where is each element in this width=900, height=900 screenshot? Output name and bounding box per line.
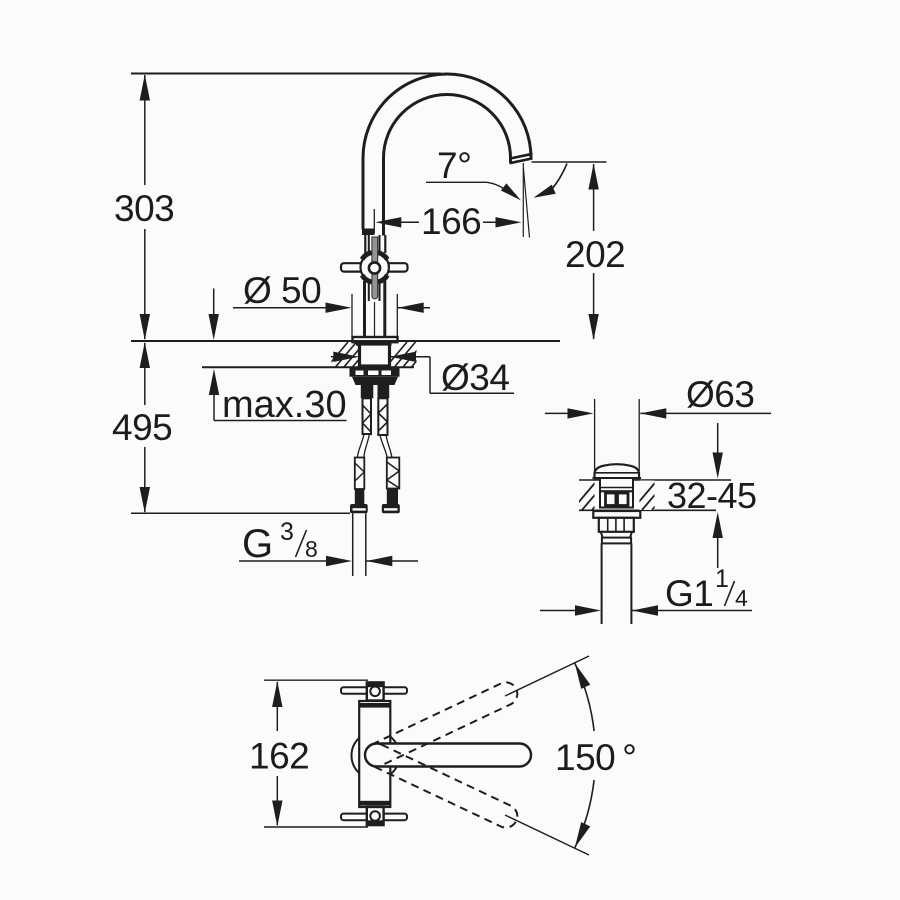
svg-text:Ø34: Ø34 — [441, 357, 509, 398]
hose nut left — [350, 504, 368, 513]
spout outlet cap (7 deg tilted mousseur) — [510, 158, 533, 163]
svg-text:32-45: 32-45 — [667, 475, 757, 516]
column below handle left — [363, 281, 366, 338]
swivel arc arrow upper — [575, 663, 591, 689]
svg-text:150 °: 150 ° — [555, 737, 636, 778]
hub horn upper-left — [362, 253, 372, 260]
spout column left edge — [362, 157, 365, 230]
drain slots — [606, 493, 617, 506]
drain tube — [601, 543, 603, 624]
dimension 495 line — [144, 343, 146, 405]
top handle bar — [341, 687, 407, 694]
spout column inner edge — [382, 157, 385, 236]
svg-text:8: 8 — [305, 536, 318, 562]
drain counter top line — [579, 479, 731, 481]
column inner right — [379, 281, 381, 301]
threaded stud left — [363, 398, 372, 434]
max30 lower arrow — [209, 369, 219, 395]
drain slot body — [600, 491, 633, 507]
locknut black — [350, 367, 400, 376]
G38 dimension — [239, 560, 330, 562]
drain flange below counter — [593, 511, 640, 518]
bottom handle block — [367, 807, 384, 825]
hose neck left — [357, 434, 364, 458]
drain taper — [601, 532, 603, 538]
dimension 202 top reference line — [532, 161, 607, 163]
deck hatch right — [386, 342, 450, 367]
svg-text:495: 495 — [112, 407, 172, 448]
hose neck right — [380, 435, 387, 458]
7 deg leader line — [426, 181, 487, 183]
stud upper blocks — [361, 385, 374, 398]
hub horn lower-right — [378, 275, 388, 282]
G38 tube — [352, 513, 354, 576]
bonnet lines — [364, 235, 366, 253]
svg-text:4: 4 — [735, 585, 748, 611]
drain hatch left — [572, 481, 617, 511]
drain cap dome — [595, 464, 640, 478]
column axis hairline — [374, 302, 376, 337]
pivot circle — [352, 732, 400, 780]
dimension 166 arrows — [375, 217, 401, 227]
495 bottom reference line — [131, 512, 350, 514]
drain hatch right — [632, 481, 677, 511]
dimension 202 line — [593, 164, 595, 231]
outlet tilted 7deg hairline — [523, 168, 529, 238]
hub horn upper-right — [378, 253, 388, 260]
dia50 underline leader — [233, 307, 340, 309]
swivel arc lower — [575, 780, 594, 848]
dia50 extension line left — [351, 294, 353, 338]
dimension 303 line — [144, 75, 146, 185]
dia63 dimension — [545, 412, 570, 414]
162 dimension line — [276, 682, 278, 731]
handle center circle — [369, 262, 380, 273]
spout inner arc — [384, 95, 511, 158]
base plate — [353, 337, 398, 342]
threaded stud right — [378, 398, 387, 435]
svg-text:303: 303 — [114, 188, 174, 229]
drain counter bottom line — [579, 509, 716, 511]
dia34 leader — [429, 357, 431, 394]
svg-text:166: 166 — [421, 201, 481, 242]
svg-text:Ø63: Ø63 — [686, 374, 754, 415]
top handle circle — [370, 687, 380, 697]
column inner left — [368, 281, 370, 301]
top handle block — [367, 682, 384, 700]
svg-text:162: 162 — [249, 736, 309, 777]
svg-text:G: G — [242, 522, 273, 566]
deck bottom line — [202, 366, 414, 368]
dimension 303 top reference line — [131, 73, 441, 75]
top view body — [359, 701, 390, 807]
dashed spout position upper — [361, 679, 521, 771]
max30 upper arrow — [213, 289, 215, 316]
crossbar handle — [341, 263, 408, 271]
outlet vertical hairline — [522, 163, 524, 237]
faucet axis hairline — [373, 209, 375, 234]
swivel ray upper — [505, 656, 589, 696]
svg-text:G1: G1 — [665, 573, 713, 614]
handle hub circle — [361, 253, 389, 281]
base plate lower black band — [356, 342, 392, 346]
tube bottom black band — [362, 229, 375, 236]
spout outer arc — [363, 74, 531, 158]
162 top reference line — [264, 679, 368, 681]
drain locknut — [599, 518, 634, 532]
hose connector left — [355, 458, 365, 490]
deck hatch left — [327, 342, 391, 367]
32-45 dimension — [717, 423, 719, 455]
bottom handle bar — [341, 814, 407, 821]
bottom handle circle — [370, 811, 380, 821]
column below handle right — [383, 281, 386, 338]
spout right tube inner edge — [509, 157, 512, 163]
shank taper black — [352, 377, 398, 385]
svg-text:202: 202 — [565, 234, 625, 275]
swivel arc arrow lower — [575, 822, 591, 848]
svg-text:7°: 7° — [437, 145, 471, 186]
drain neck — [600, 478, 633, 491]
dia63 extension lines — [594, 399, 596, 471]
handle spindle — [372, 237, 378, 299]
svg-text:1: 1 — [715, 565, 729, 593]
162 bottom reference line — [264, 826, 368, 828]
solid spout top view — [365, 744, 531, 767]
svg-text:3: 3 — [280, 518, 294, 546]
hub horn lower-left — [362, 275, 372, 282]
dia34 arrows — [331, 356, 335, 358]
dia50 extension line right — [396, 294, 398, 338]
svg-text:Ø 50: Ø 50 — [243, 270, 321, 311]
swivel arc upper — [575, 663, 594, 731]
hose connector right — [387, 458, 400, 489]
G1 1/4 dimension — [540, 610, 578, 612]
shank block — [360, 344, 390, 366]
svg-text:max.30: max.30 — [222, 384, 347, 426]
hose nut right — [382, 504, 400, 513]
drain ring — [602, 538, 631, 544]
deck top line — [131, 340, 560, 342]
max30 underline — [214, 420, 347, 422]
7 deg angle arc — [550, 164, 567, 191]
swivel ray lower — [505, 815, 589, 855]
dashed spout position lower — [361, 740, 521, 832]
